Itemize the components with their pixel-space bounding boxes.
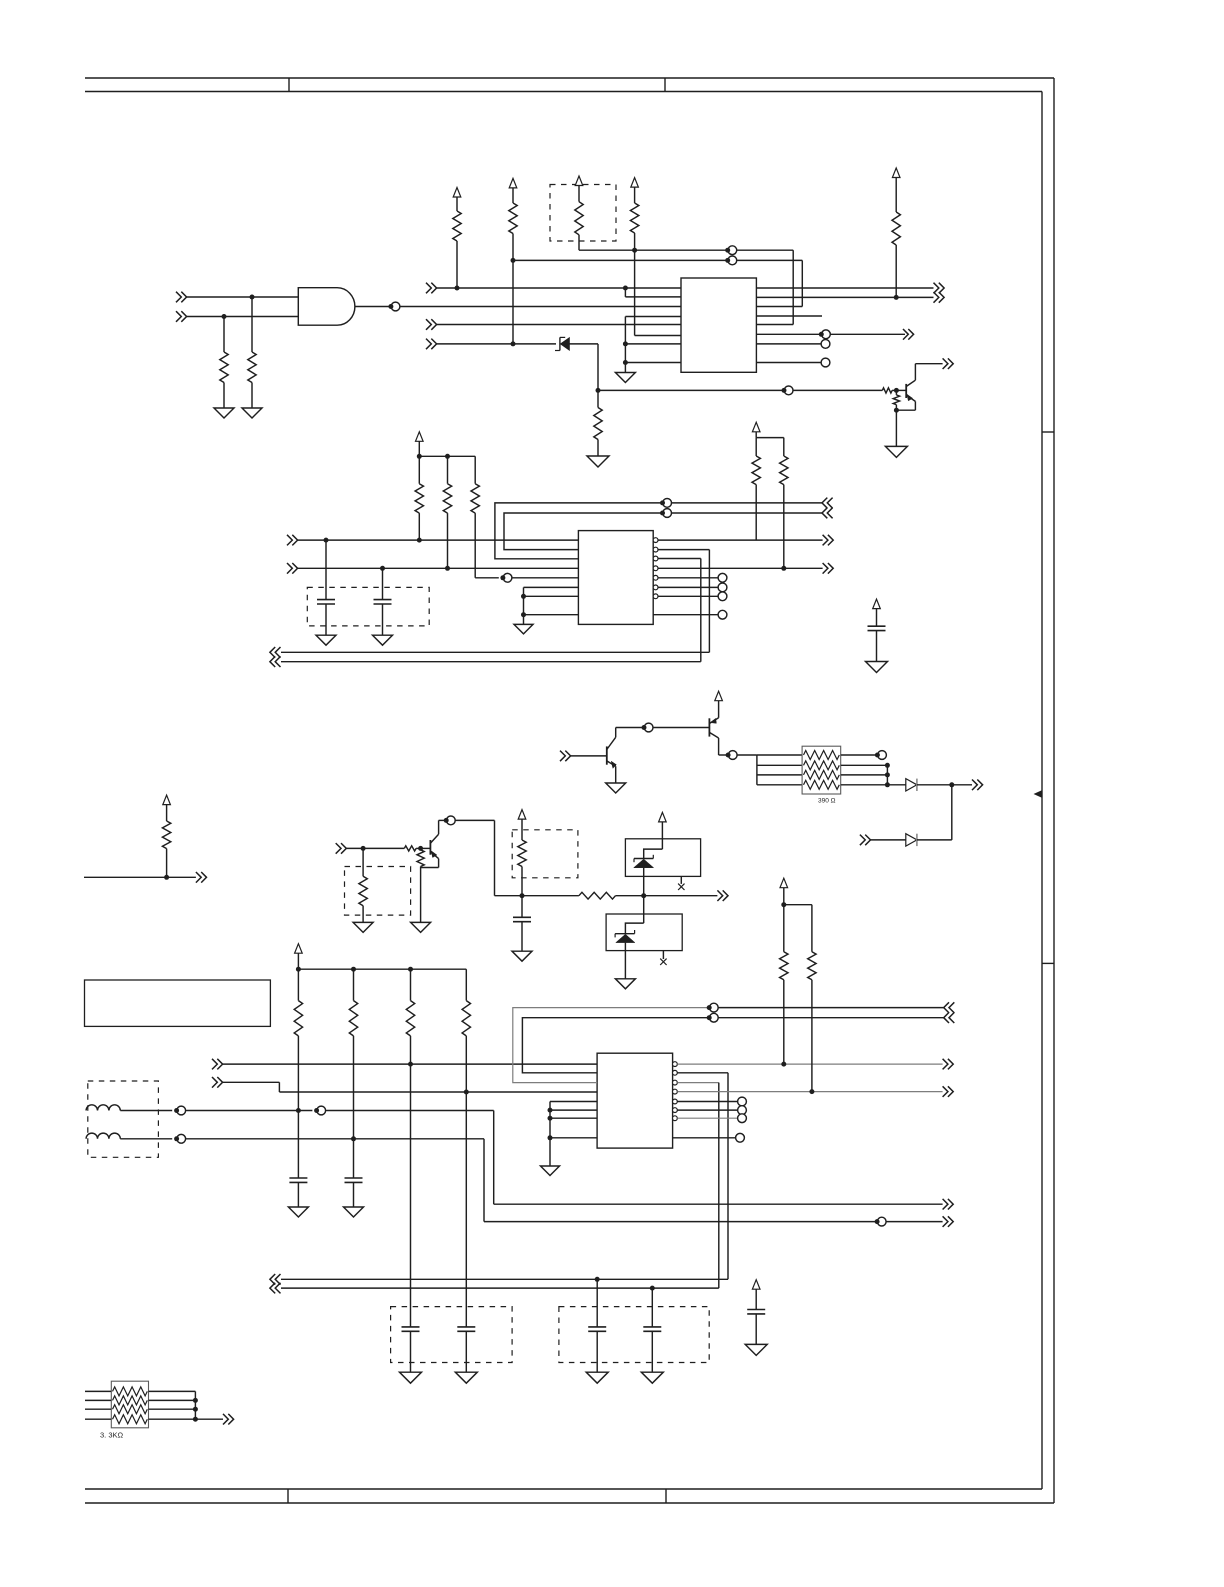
svg-text:3. 3KΩ: 3. 3KΩ	[100, 1431, 124, 1440]
svg-text:390 Ω: 390 Ω	[818, 798, 836, 805]
